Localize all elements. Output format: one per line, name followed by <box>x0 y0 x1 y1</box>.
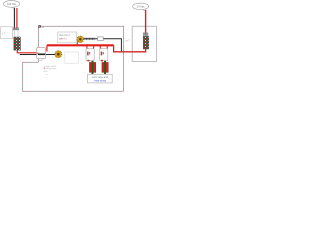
aquastat A1 <box>37 48 46 61</box>
wire: red bus drop and run to boiler TB2 <box>114 45 146 52</box>
connector plug (right cable) <box>143 33 148 37</box>
cable sheath (left, pale) <box>14 30 18 37</box>
zone valve ZV2 body <box>100 49 108 62</box>
wire: left feed hot (red) <box>16 8 18 28</box>
caption box (bottom) <box>88 74 113 83</box>
wire: left feed neutral (black) <box>13 8 15 28</box>
svg-text:wire t-t: wire t-t <box>59 38 67 41</box>
wire: black run to circulator C1 <box>20 54 56 56</box>
valve actuator V2 (red block, green stripe) <box>102 62 108 72</box>
wire: red stub zone valve ZV1 left <box>86 45 88 49</box>
corner marker at dashed box top-left <box>38 25 44 29</box>
wire: red riser from aquastat <box>46 45 48 51</box>
svg-text:r w: r w <box>45 73 48 76</box>
green lead V2 lower <box>104 72 106 74</box>
note text mid-left <box>43 66 57 76</box>
svg-text:cv: cv <box>54 66 57 68</box>
wire: red drop to gas valve G2 <box>76 41 78 45</box>
green lead ZV1 upper <box>92 61 94 63</box>
switch S1 on black line <box>98 37 104 41</box>
green lead ZV2 upper <box>104 61 106 63</box>
supply callout ellipse (right, 24 Vac) <box>133 3 149 11</box>
svg-text:120 Vac: 120 Vac <box>7 2 17 6</box>
valve actuator V1 (red block, green stripe) <box>89 62 95 72</box>
terminal block TB1 (left) <box>14 37 21 50</box>
svg-text:TU4: TU4 <box>43 71 48 73</box>
label box (top-left legend) <box>1 27 13 39</box>
wire: red stub zone valve ZV2 right <box>106 45 108 49</box>
green lead V1 lower <box>92 72 94 74</box>
circulator C1 (lower yellow) <box>55 51 62 58</box>
wire: red from TB1 to aquastat <box>17 50 37 53</box>
faint relay box right of circulator <box>65 52 79 63</box>
wire: red stub zone valve ZV1 right <box>93 45 95 49</box>
note box (top center) <box>58 32 77 43</box>
connector plug (left cable) <box>13 28 19 30</box>
wire: main red 24V bus <box>47 44 114 46</box>
terminal block TB2 (boiler) <box>143 36 149 49</box>
zone valve ZV1 body <box>86 49 94 62</box>
boiler cabinet box (right) <box>132 26 156 61</box>
svg-text:24 Vac: 24 Vac <box>137 5 146 9</box>
svg-text:hr ?: hr ? <box>126 40 131 43</box>
supply callout ellipse (left, 120 Vac) <box>3 1 19 9</box>
wire: red stub zone valve ZV2 left <box>99 45 101 49</box>
wire: right red feed from 24 Vac <box>145 10 147 33</box>
dashed boundary (equipment room outline) <box>23 26 124 91</box>
wire: black line from gas valve G2 with ticks <box>83 38 121 52</box>
svg-text:t-stat wiring: t-stat wiring <box>94 79 107 82</box>
gas valve G2 (upper yellow) <box>77 36 83 42</box>
